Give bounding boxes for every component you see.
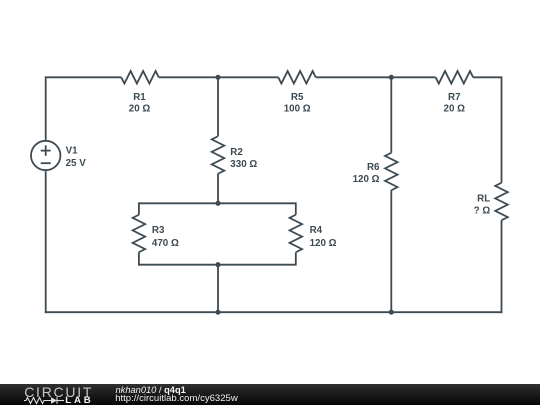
wire R6 to bottom rail xyxy=(390,190,392,312)
resistor R1 20 Ω xyxy=(121,71,159,114)
wire top rail from V1 to R1 xyxy=(46,77,122,140)
svg-text:100 Ω: 100 Ω xyxy=(284,103,311,114)
svg-text:470 Ω: 470 Ω xyxy=(152,238,179,249)
wire parallel block right: top to R4 xyxy=(295,202,297,214)
wire top rail R7 to right corner, down to RL xyxy=(473,77,501,182)
wire node A down to R2 xyxy=(217,77,219,136)
resistor RL ? Ω (load) xyxy=(474,183,508,221)
svg-text:R6: R6 xyxy=(367,162,380,173)
svg-text:RL: RL xyxy=(477,194,490,205)
wire parallel block left: R3 to bottom xyxy=(138,252,140,265)
svg-text:120 Ω: 120 Ω xyxy=(353,174,380,185)
wire parallel block bottom rail xyxy=(139,264,296,266)
svg-text:25 V: 25 V xyxy=(66,158,87,169)
CircuitLab logo wordmark LAB xyxy=(65,396,93,406)
svg-text:120 Ω: 120 Ω xyxy=(310,238,337,249)
svg-text:R7: R7 xyxy=(448,92,461,103)
node A junction dot (top rail / R2 branch) xyxy=(215,75,220,80)
resistor R3 470 Ω xyxy=(133,215,179,253)
voltage source V1 25 V xyxy=(31,141,86,170)
credit line username / title xyxy=(116,386,186,395)
wire node B down to R6 xyxy=(390,77,392,152)
wire parallel block right: R4 to bottom xyxy=(295,252,297,265)
junction dot parallel block bottom xyxy=(215,262,220,267)
resistor R4 120 Ω xyxy=(290,215,337,253)
svg-text:20 Ω: 20 Ω xyxy=(444,103,466,114)
svg-text:V1: V1 xyxy=(66,145,79,156)
svg-text:R3: R3 xyxy=(152,225,165,236)
junction dot bottom rail / R6 branch xyxy=(389,310,394,315)
credit line url xyxy=(115,394,238,404)
wire top rail R1 to R5 (through node A) xyxy=(159,76,279,78)
wire bottom rail xyxy=(45,311,503,313)
wire V1 bottom to bottom rail xyxy=(45,171,47,313)
resistor R5 100 Ω xyxy=(278,71,316,114)
wire RL to bottom rail xyxy=(501,220,503,313)
resistor R2 330 Ω xyxy=(212,136,258,174)
junction dot parallel block top xyxy=(215,201,220,206)
CircuitLab logo wordmark CIRCUIT xyxy=(24,385,93,399)
footer bar xyxy=(0,384,540,405)
wire R2 to parallel block top xyxy=(217,174,219,204)
svg-text:330 Ω: 330 Ω xyxy=(230,159,257,170)
logo resistor-diode glyph xyxy=(24,395,66,407)
wire top rail R5 to R7 (through node B) xyxy=(316,76,436,78)
junction dot bottom rail / R2 branch xyxy=(215,310,220,315)
wire parallel block to bottom rail xyxy=(217,265,219,313)
resistor R6 120 Ω xyxy=(353,153,398,191)
svg-text:R2: R2 xyxy=(230,147,243,158)
svg-text:? Ω: ? Ω xyxy=(474,206,491,217)
resistor R7 20 Ω xyxy=(436,71,474,114)
node B junction dot (top rail / R6 branch) xyxy=(389,75,394,80)
svg-text:R1: R1 xyxy=(133,92,146,103)
svg-text:R5: R5 xyxy=(291,92,304,103)
wire parallel block left: top to R3 xyxy=(138,202,140,214)
svg-text:20 Ω: 20 Ω xyxy=(129,103,151,114)
svg-text:R4: R4 xyxy=(310,225,323,236)
wire parallel block top rail xyxy=(139,202,296,204)
